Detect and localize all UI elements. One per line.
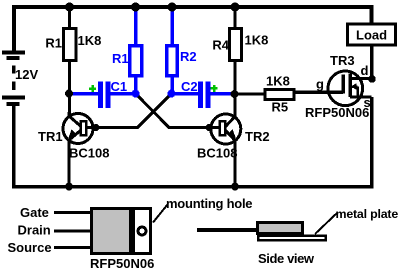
- svg-text:RFP50N06: RFP50N06: [90, 256, 154, 271]
- svg-text:1K8: 1K8: [78, 33, 102, 48]
- svg-text:Drain: Drain: [18, 223, 51, 238]
- svg-text:R5: R5: [272, 100, 289, 115]
- svg-text:TR2: TR2: [245, 129, 270, 144]
- svg-text:C2: C2: [181, 79, 198, 94]
- svg-text:1K8: 1K8: [266, 74, 290, 89]
- svg-text:RFP50N06: RFP50N06: [305, 105, 369, 120]
- svg-text:Source: Source: [8, 240, 52, 255]
- svg-text:12V: 12V: [15, 67, 38, 82]
- svg-text:TR1: TR1: [38, 129, 63, 144]
- svg-text:R4: R4: [212, 38, 229, 53]
- svg-text:metal plate: metal plate: [336, 207, 399, 221]
- svg-text:Load: Load: [356, 28, 387, 43]
- svg-text:TR3: TR3: [330, 53, 355, 68]
- svg-text:g: g: [316, 77, 324, 92]
- svg-text:Side view: Side view: [258, 251, 315, 266]
- svg-text:1K8: 1K8: [245, 33, 269, 48]
- svg-text:C1: C1: [111, 79, 128, 94]
- svg-text:Gate: Gate: [20, 205, 49, 220]
- svg-text:R2: R2: [180, 49, 197, 64]
- svg-text:R1: R1: [112, 51, 129, 66]
- svg-text:R1: R1: [45, 36, 62, 51]
- svg-text:mounting hole: mounting hole: [166, 196, 252, 211]
- svg-text:d: d: [361, 63, 369, 78]
- svg-text:BC108: BC108: [69, 146, 109, 161]
- svg-text:BC108: BC108: [197, 146, 237, 161]
